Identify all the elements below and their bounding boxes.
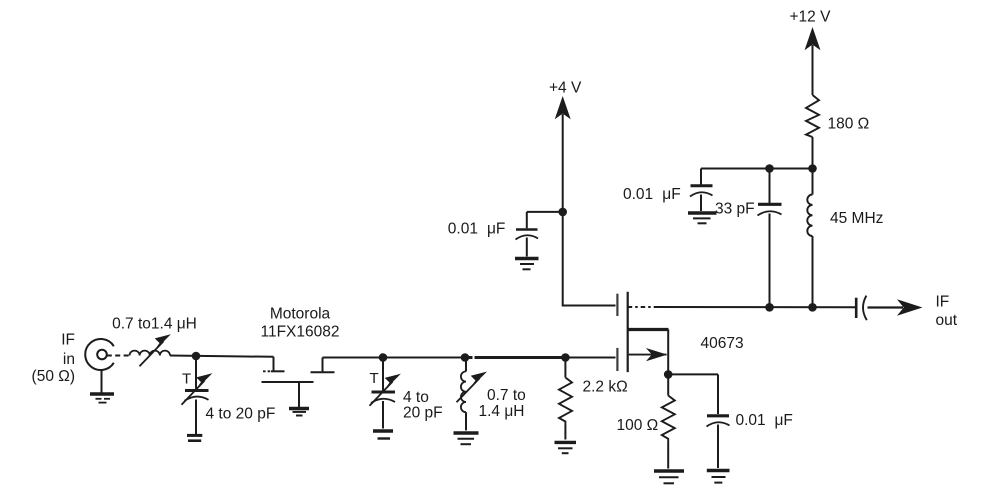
capacitor C4 0.01 uF +4V bypass [516, 212, 539, 257]
svg-text:in: in [63, 351, 75, 368]
variable inductor L1 0.7-1.4 uH [130, 335, 170, 366]
variable inductor L2 0.7-1.4 uH [457, 358, 486, 431]
svg-text:0.01: 0.01 [623, 186, 653, 203]
node F junction (+4V bypass tap) [558, 208, 567, 217]
svg-text:4 to 20 pF: 4 to 20 pF [206, 406, 276, 423]
node H junction (33pF top) [765, 164, 774, 173]
wire (node F to C4) [527, 211, 563, 213]
trimmer capacitor C1 4 to 20 pF [182, 356, 211, 434]
wire (top rail node G to C5) [701, 168, 813, 170]
svg-text:11FX16082: 11FX16082 [261, 324, 340, 341]
wire (+4V rail down to gate 2) [563, 114, 616, 306]
svg-text:T: T [370, 370, 379, 387]
svg-text:IF: IF [61, 332, 75, 349]
power +4 V [549, 80, 582, 119]
node J junction (tank bottom) [808, 303, 817, 312]
ground (R2) [654, 471, 684, 483]
svg-text:IF: IF [936, 294, 950, 311]
node E junction (source) [664, 370, 673, 379]
power +12 V [790, 9, 832, 50]
output label IF out [936, 294, 958, 330]
ground (BNC shell) [90, 394, 114, 403]
ground (C4) [515, 259, 539, 270]
svg-text:180 Ω: 180 Ω [828, 116, 870, 133]
svg-text:μF: μF [662, 186, 680, 203]
trimmer capacitor C2 4 to 20 pF [370, 358, 400, 429]
svg-text:0.01: 0.01 [448, 221, 478, 238]
svg-text:33 pF: 33 pF [715, 201, 755, 218]
svg-text:1.4 μH: 1.4 μH [479, 403, 525, 420]
svg-text:T: T [182, 371, 191, 388]
node C junction [461, 353, 470, 362]
svg-text:45 MHz: 45 MHz [830, 210, 883, 227]
svg-text:μF: μF [775, 412, 793, 429]
ground (R1) [555, 442, 577, 453]
labels C2 value [403, 389, 443, 422]
wire (filter out to node C) [323, 357, 466, 359]
svg-text:+12 V: +12 V [790, 9, 832, 26]
capacitor C7 output coupling [856, 296, 867, 321]
resistor R3 180 ohm [806, 95, 819, 137]
ground (C2) [373, 431, 393, 439]
ground (FL1) [289, 409, 309, 416]
svg-text:4 to: 4 to [403, 389, 429, 406]
svg-text:20 pF: 20 pF [403, 405, 443, 422]
svg-text:2.2 kΩ: 2.2 kΩ [583, 379, 628, 396]
node I junction (33pF bottom) [765, 303, 774, 312]
svg-text:out: out [936, 312, 958, 329]
ground (L2) [454, 433, 479, 444]
wire (output arrow) [868, 300, 921, 314]
capacitor C6 33 pF [758, 169, 782, 308]
ground (C3) [707, 471, 730, 483]
svg-text:100 Ω: 100 Ω [617, 417, 659, 434]
wire (L1 to filter input) [170, 356, 274, 357]
input label IF in (50 ohm) [32, 332, 75, 386]
node A junction [192, 352, 201, 361]
svg-text:μF: μF [487, 221, 505, 238]
resistor R1 2.2 kohm [559, 358, 572, 440]
ground (C5) [688, 213, 717, 223]
wire (node E to C3) [668, 373, 718, 375]
node D junction [561, 353, 570, 362]
node B junction [379, 353, 388, 362]
label FL1 Motorola 11FX16082 [261, 306, 340, 341]
svg-text:0.7 to: 0.7 to [487, 387, 526, 404]
svg-text:40673: 40673 [701, 335, 744, 352]
resistor R2 100 ohm [662, 374, 675, 468]
svg-text:0.7 to1.4 μH: 0.7 to1.4 μH [112, 316, 197, 333]
wire (dashed, J1 to L1) [107, 355, 130, 357]
svg-text:(50 Ω): (50 Ω) [32, 368, 75, 385]
filter FL1 Motorola 11FX16082 [262, 357, 335, 407]
capacitor C5 0.01 uF top bypass [690, 169, 713, 212]
capacitor C3 0.01 uF source bypass [707, 374, 730, 468]
connector J1 BNC IF input [85, 339, 114, 393]
transistor Q1 40673 dual-gate MOSFET [617, 292, 668, 375]
wire (node D to gate 1) [565, 357, 615, 359]
svg-text:0.01: 0.01 [736, 412, 766, 429]
labels L2 value [479, 387, 526, 420]
svg-text:+4 V: +4 V [549, 80, 582, 97]
wire (node C to node D, bold) [466, 356, 565, 359]
wire (R3 to node G) [812, 137, 814, 169]
node G junction [808, 164, 817, 173]
ground (C1) [187, 435, 202, 440]
wire (drain line to output) [628, 306, 856, 308]
svg-text:Motorola: Motorola [270, 306, 331, 323]
inductor L3 45 MHz [807, 169, 812, 308]
wire (+12V to R3) [812, 45, 814, 95]
